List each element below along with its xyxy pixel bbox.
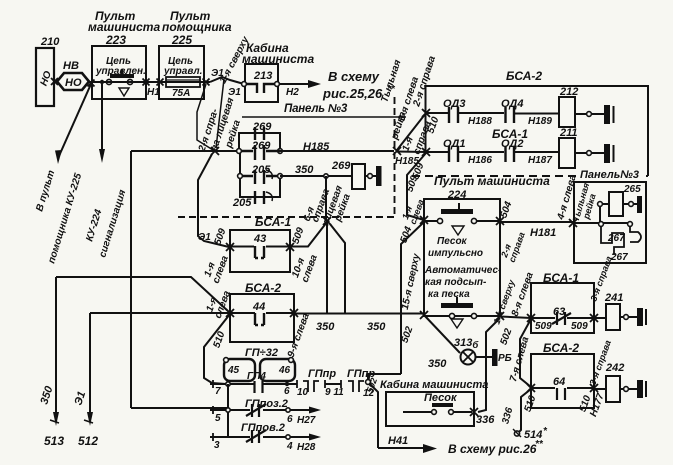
- X mark at 225 right: [203, 79, 210, 86]
- pin circle 45: [224, 358, 229, 363]
- svg-text:510: 510: [211, 330, 227, 350]
- arrowhead 513: [53, 412, 59, 426]
- switch in box 223: [106, 69, 134, 96]
- wire 350 terminal horizontal: [56, 277, 229, 312]
- svg-text:рис.25,26: рис.25,26: [322, 86, 383, 101]
- dashed panel boundary horizontal: [178, 216, 394, 218]
- svg-text:509: 509: [535, 321, 552, 332]
- label 1-я слева on jog: [400, 198, 426, 226]
- svg-text:205: 205: [251, 164, 271, 176]
- svg-text:Н181: Н181: [530, 227, 556, 239]
- arrowhead КУ-225: [55, 150, 62, 164]
- X at row2 left: [422, 148, 430, 156]
- wire lamp to РБ: [476, 356, 493, 358]
- junction dot row1: [285, 382, 289, 386]
- wire 213 to arrow: [279, 83, 308, 85]
- wire row1 to ГПпр: [289, 383, 297, 385]
- wire row1: [426, 112, 559, 115]
- svg-text:РБ: РБ: [498, 353, 512, 364]
- svg-text:ГП÷32: ГП÷32: [245, 347, 278, 359]
- box 63: [531, 283, 594, 333]
- svg-text:Тыльная: Тыльная: [379, 58, 403, 104]
- svg-text:НО: НО: [65, 77, 82, 89]
- svg-text:ОД2: ОД2: [501, 138, 523, 150]
- contact 269 upper: [255, 127, 264, 140]
- svg-text:514: 514: [524, 429, 542, 441]
- svg-text:Кабина машиниста: Кабина машиниста: [380, 379, 488, 391]
- svg-text:импульсно: импульсно: [428, 248, 483, 259]
- X at 43 left: [226, 243, 234, 251]
- pin circle 46: [289, 358, 294, 363]
- arrow Н27: [290, 409, 310, 411]
- vent valve 265: [598, 184, 642, 216]
- svg-text:75А: 75А: [172, 88, 190, 99]
- label 1-я слева at БСА-1: [202, 254, 231, 285]
- contacts in box 213: [246, 84, 275, 93]
- vertical J2 to 350 bus: [326, 221, 328, 314]
- svg-text:Панель №3: Панель №3: [284, 103, 348, 115]
- box 224: [424, 189, 500, 316]
- svg-text:ка песка: ка песка: [428, 289, 470, 300]
- contact ОД4: [506, 107, 515, 123]
- big box БСА top right: [426, 86, 649, 176]
- contact ГПпр 1: [297, 380, 325, 392]
- pins of box 213: [242, 82, 247, 87]
- X mark right of relay НВ: [88, 80, 95, 87]
- X at 44 right: [290, 309, 298, 317]
- vent valve 241: [594, 292, 646, 330]
- wire from 223 node down to КУ-224 arrow: [101, 84, 103, 155]
- svg-text:кая подсып-: кая подсып-: [425, 277, 487, 288]
- label 1-я слева at 44: [204, 289, 233, 320]
- X at 44 left: [226, 309, 234, 317]
- wire 510 from 44 to ГП: [204, 314, 230, 384]
- wire through 63: [531, 317, 594, 319]
- rail 502 from 12 down to Н41: [368, 374, 401, 448]
- arrow to схему рис 25,26: [308, 80, 321, 88]
- svg-text:Э1: Э1: [198, 232, 211, 243]
- vertical from relay node to J2: [325, 176, 327, 221]
- svg-text:*: *: [543, 426, 548, 437]
- svg-text:Н185: Н185: [303, 141, 330, 153]
- wire 224 bottom right down to Песок switch: [478, 318, 500, 412]
- svg-text:Н189: Н189: [528, 116, 552, 127]
- svg-text:6: 6: [287, 414, 293, 425]
- X at 64 right: [590, 384, 598, 392]
- inner wire of Тыльная box: [573, 222, 630, 224]
- relay coil 269 (vent): [331, 160, 382, 189]
- wire from НВ node down-left to КУ-225 arrow: [59, 84, 91, 156]
- label КУ-224 сигнализация: [84, 188, 128, 258]
- bypass loop 269: [239, 133, 280, 149]
- label Автоматическая подсыпка песка: [424, 265, 502, 300]
- svg-text:509: 509: [571, 321, 588, 332]
- box Песок: [386, 392, 474, 426]
- wire 63 to 514 rail: [520, 319, 531, 387]
- label Панель №3 right: [578, 168, 646, 181]
- svg-text:336: 336: [476, 414, 495, 426]
- relay НВ (octagon НО): [57, 60, 89, 90]
- svg-text:БСА-1: БСА-1: [255, 215, 291, 229]
- hook of contact 205: [266, 170, 272, 179]
- label 1-я сверху right of 224: [491, 278, 517, 326]
- svg-text:3: 3: [214, 440, 220, 451]
- svg-text:Панель№3: Панель№3: [580, 169, 639, 181]
- coil 267 upper: [601, 226, 624, 243]
- wire 350 to relay 269: [280, 175, 352, 177]
- 350 bus: [90, 312, 424, 315]
- svg-text:8-я слева: 8-я слева: [510, 270, 536, 318]
- X at Тыльная box left: [569, 219, 577, 227]
- wire bottom row 224 to 63: [500, 317, 531, 319]
- vent valve 242: [594, 362, 646, 402]
- pin circle 12: [366, 380, 371, 385]
- svg-text:Э1: Э1: [228, 87, 241, 98]
- Э1 rail from junction to БСА-1: [198, 154, 229, 247]
- wire НВ to box 223: [89, 81, 95, 83]
- svg-text:509: 509: [290, 226, 306, 246]
- X at 43 right: [286, 243, 294, 251]
- label 6 Н27: [287, 414, 316, 426]
- contact ГПпр 2: [341, 380, 364, 392]
- channel 2-я справа лицевая рейка: [197, 79, 224, 150]
- svg-text:504: 504: [398, 225, 414, 245]
- node on Н185 right of 269: [278, 149, 283, 154]
- svg-text:64: 64: [553, 376, 565, 388]
- wire Н185 from left bus: [131, 150, 239, 152]
- pin 3 tick: [212, 433, 214, 441]
- pin 5 tick: [212, 406, 214, 414]
- svg-text:205: 205: [232, 197, 252, 209]
- svg-text:502: 502: [498, 327, 514, 347]
- svg-text:6: 6: [284, 386, 290, 397]
- terminal 512 vertical: [89, 313, 91, 418]
- wire between ГПпр: [325, 383, 341, 385]
- svg-text:269: 269: [331, 160, 351, 172]
- wire Н181: [500, 221, 573, 223]
- ГП row1 wire: [210, 383, 287, 385]
- ГП row2 wire: [210, 409, 286, 411]
- svg-text:223: 223: [105, 33, 126, 47]
- contact 64: [557, 388, 565, 400]
- svg-text:ГПпр: ГПпр: [308, 368, 336, 380]
- slant to БСА row1: [397, 113, 426, 150]
- svg-text:Н188: Н188: [468, 116, 492, 127]
- terminal block 210: [36, 36, 60, 106]
- svg-text:ГП4: ГП4: [247, 371, 266, 382]
- X at 224 bottom right: [496, 312, 504, 320]
- contact 43: [255, 246, 264, 258]
- node at 630: [628, 222, 633, 227]
- svg-text:10: 10: [297, 387, 309, 398]
- bypass loop 205 lower: [240, 178, 280, 197]
- X at 64 left: [527, 384, 535, 392]
- svg-text:7: 7: [215, 386, 221, 397]
- svg-text:КУ-224: КУ-224: [84, 208, 104, 243]
- svg-text:213: 213: [253, 70, 272, 82]
- dashed panel boundary vertical: [394, 97, 396, 216]
- svg-text:512: 512: [78, 434, 98, 448]
- label В пульт помощника КУ-225: [34, 169, 84, 265]
- vent valve 212: [559, 86, 614, 127]
- svg-text:ОД1: ОД1: [443, 138, 465, 150]
- vent valve 211: [559, 127, 614, 168]
- contact 44: [255, 313, 264, 325]
- svg-text:225: 225: [171, 33, 192, 47]
- svg-text:НВ: НВ: [63, 60, 79, 72]
- svg-text:9-я слева: 9-я слева: [286, 311, 312, 359]
- contact 205 on wire: [242, 170, 278, 184]
- X at Песок right: [470, 408, 478, 416]
- svg-text:210: 210: [40, 36, 60, 48]
- left bus vertical: [130, 151, 132, 408]
- svg-text:510: 510: [522, 394, 538, 414]
- wire to БСА row2: [397, 151, 426, 154]
- junction X on Н185: [211, 147, 219, 155]
- svg-text:ОД4: ОД4: [501, 98, 523, 110]
- svg-text:5: 5: [215, 413, 221, 424]
- rail down to 514: [518, 389, 531, 433]
- svg-text:управл.: управл.: [163, 66, 202, 77]
- svg-text:Автоматичес-: Автоматичес-: [424, 265, 502, 276]
- arrow Н28: [290, 436, 310, 438]
- svg-text:241: 241: [604, 292, 623, 304]
- svg-text:513: 513: [44, 434, 64, 448]
- svg-text:350: 350: [367, 321, 386, 333]
- dashed bottom Панель №3: [412, 175, 648, 177]
- node at 326: [324, 174, 328, 178]
- ГП pin bus vertical: [227, 384, 229, 437]
- Тыльная рейка box right: [574, 182, 646, 263]
- svg-text:Н28: Н28: [297, 442, 316, 453]
- wire through 64: [531, 387, 594, 389]
- svg-text:Н27: Н27: [297, 415, 316, 426]
- label Пульт помощника: [162, 9, 232, 47]
- svg-text:В схему рис.26: В схему рис.26: [448, 442, 537, 456]
- X at 224 top row right: [496, 217, 504, 225]
- svg-text:350: 350: [295, 164, 314, 176]
- lamp 313б: [454, 337, 479, 365]
- node circle at 228 row1: [226, 382, 230, 386]
- box 213: [245, 64, 278, 102]
- switch Песок: [403, 403, 472, 414]
- svg-text:Н186: Н186: [468, 155, 492, 166]
- contact ОД2: [506, 146, 515, 162]
- svg-text:350: 350: [38, 384, 55, 406]
- wire 223 to 225: [95, 81, 159, 83]
- svg-text:46: 46: [278, 365, 291, 376]
- wire node in 223: [100, 80, 104, 84]
- svg-text:269: 269: [251, 140, 271, 152]
- svg-text:Н2: Н2: [286, 87, 299, 98]
- label 2-я справа right: [499, 231, 527, 264]
- box 225 Цепь управл: [159, 46, 204, 99]
- label 4 Н28: [286, 441, 316, 453]
- wire 43 to junction J2: [290, 222, 327, 247]
- label Пульт машиниста: [88, 9, 160, 47]
- wire row2: [426, 151, 559, 153]
- contact ГПпоз2: [246, 404, 266, 417]
- wire through 43: [230, 246, 290, 248]
- label Кабина машиниста: [242, 41, 314, 66]
- cam box 45: [224, 359, 255, 381]
- svg-text:1-я сверху: 1-я сверху: [491, 278, 517, 326]
- switch top in 224: [437, 203, 476, 235]
- node 205 left: [238, 174, 243, 179]
- contact ГП4: [255, 381, 263, 393]
- svg-text:43: 43: [253, 233, 266, 245]
- ГП row3 wire: [210, 436, 286, 438]
- label 6-я справа лицевая рейка: [302, 184, 353, 228]
- label Песок импульсно: [428, 236, 483, 259]
- X at 224 top row left: [420, 216, 428, 224]
- junction X Н185 right: [393, 147, 401, 155]
- svg-text:45: 45: [227, 365, 240, 376]
- X at row1 left: [422, 109, 430, 117]
- wire 225 to box 213 with rise: [210, 77, 244, 84]
- svg-text:265: 265: [623, 184, 641, 195]
- contact ОД1: [449, 146, 458, 162]
- contact 205 lower: [255, 191, 264, 204]
- svg-text:350: 350: [316, 321, 335, 333]
- svg-text:В пульт: В пульт: [34, 169, 57, 213]
- cam box 46: [260, 359, 295, 381]
- terminal 514: [513, 426, 548, 441]
- wire 265 down to inner wire: [599, 206, 601, 222]
- svg-text:Песок: Песок: [437, 236, 468, 247]
- box 223 Цепь управления: [92, 46, 146, 99]
- node on Н185 left of 269: [237, 149, 242, 154]
- hook of contact 205 lower: [266, 192, 272, 201]
- contact 269 on wire Н185: [241, 145, 280, 160]
- wire through 44: [230, 312, 294, 314]
- label 2-я справа лицевая рейка: [196, 96, 243, 154]
- contact 63: [552, 312, 571, 325]
- БСА-1 contact 43 box: [230, 215, 291, 272]
- node circle row3 right: [286, 435, 290, 439]
- label В схему рис.26: [448, 439, 544, 456]
- svg-text:350: 350: [428, 358, 447, 370]
- X mark at 223 right edge: [143, 79, 150, 86]
- pin 7 tick: [212, 380, 214, 388]
- X at 63 left: [527, 314, 535, 322]
- БСА-2 contact 44 box: [230, 281, 294, 342]
- svg-text:44: 44: [252, 301, 265, 313]
- svg-text:269: 269: [252, 121, 272, 133]
- label 1-я справа rotated: [400, 119, 433, 156]
- left bus bottom horizontal to ГП: [131, 407, 228, 409]
- svg-text:БСА-2: БСА-2: [245, 281, 281, 295]
- wire down to 205 branch: [239, 153, 241, 176]
- svg-text:В схему: В схему: [328, 69, 380, 84]
- svg-text:Э1: Э1: [72, 390, 88, 407]
- svg-text:сигнализация: сигнализация: [97, 188, 128, 258]
- switch bottom in 224: [441, 297, 477, 328]
- arrowhead 512: [87, 412, 93, 426]
- label В схему рис 25,26: [322, 69, 396, 101]
- node 205 right: [278, 174, 283, 179]
- svg-text:336: 336: [500, 406, 515, 425]
- wire Н41 arrow: [378, 447, 424, 449]
- label Панель №3: [284, 103, 348, 115]
- X mark left of relay НВ: [51, 78, 58, 85]
- svg-text:Пульт машиниста: Пульт машиниста: [434, 174, 550, 188]
- svg-text:БСА-2: БСА-2: [543, 341, 579, 355]
- node at 601: [599, 222, 604, 227]
- contact ОД3: [449, 107, 458, 123]
- slant J2 to 345 rail: [330, 224, 345, 314]
- lamp 313б slant wire: [424, 315, 460, 353]
- svg-text:9 11: 9 11: [325, 387, 344, 398]
- svg-text:510: 510: [425, 115, 441, 135]
- X at 63 right: [590, 314, 598, 322]
- box 64: [531, 354, 594, 408]
- arrowhead КУ-224: [99, 149, 105, 163]
- terminal 513 vertical: [55, 277, 57, 418]
- svg-text:4: 4: [286, 441, 293, 452]
- X at 224 bottom left: [420, 311, 428, 319]
- svg-text:Н41: Н41: [388, 435, 408, 447]
- svg-text:267: 267: [607, 233, 625, 244]
- resistor РБ: [492, 349, 512, 366]
- wire Н185 to right junction: [280, 150, 394, 152]
- junction J2 X: [323, 217, 331, 225]
- label Тыльная рейка rotated: [379, 58, 408, 141]
- wire top row in 224: [424, 220, 500, 222]
- svg-text:помощника: помощника: [162, 20, 232, 34]
- svg-text:Песок: Песок: [424, 392, 458, 404]
- 504 slant and rail down from 224: [401, 222, 424, 374]
- underline Панель №3: [242, 116, 406, 118]
- label 10-я слева: [290, 253, 320, 284]
- coil 267 lower: [614, 233, 624, 255]
- node circle at 228 row2: [226, 408, 230, 412]
- X mark at 225 left edge: [157, 79, 164, 86]
- svg-text:БСА-2: БСА-2: [506, 69, 542, 83]
- svg-text:15-я сверху: 15-я сверху: [400, 252, 423, 310]
- label 9-я слева right of 44: [286, 311, 312, 359]
- fuse 75А in box 225: [159, 77, 210, 99]
- node circle row2 right: [286, 408, 290, 412]
- contact ГПпов2: [246, 430, 266, 443]
- hook right: [630, 226, 641, 242]
- label Тыльная рейка rotated right: [571, 181, 598, 223]
- svg-text:Н177: Н177: [588, 392, 607, 419]
- svg-text:Н187: Н187: [528, 155, 552, 166]
- svg-text:ОД3: ОД3: [443, 98, 465, 110]
- 509 jog from row2 to box 224: [407, 153, 426, 220]
- svg-text:242: 242: [605, 362, 624, 374]
- svg-text:машиниста: машиниста: [88, 20, 160, 34]
